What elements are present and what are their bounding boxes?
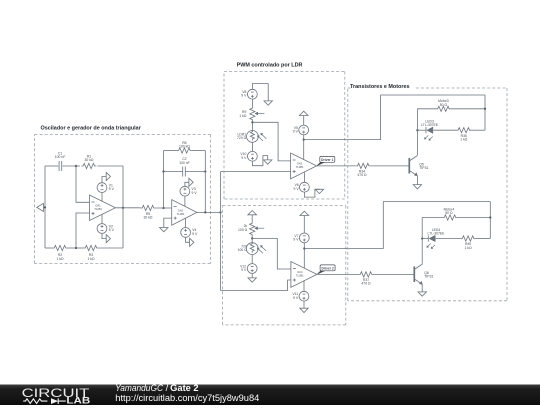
wire: triangle wave vertical distribution [220,172,222,291]
wire: collector vertical Q6 [421,218,423,264]
svg-text:1 kΩ: 1 kΩ [460,138,468,142]
resistor R37 [359,272,374,277]
wire: stage1 top rail y=166 [45,165,58,167]
wire: non-inverting input stub to bottom rail [76,213,90,248]
wire: right vertical of Motor3 loop [484,95,486,130]
voltage source V8 [248,89,258,99]
ground symbol below Q5 [413,185,421,189]
wire: +9V rail to transistor section (Motor3) [304,95,485,140]
svg-text:9 V: 9 V [192,232,198,236]
wire: R9 to LDR1 [251,121,253,130]
wire: V11 negative supply stem [303,281,305,291]
svg-text:100 Ω: 100 Ω [238,248,248,252]
wire: LDR2 to V12 [251,255,253,264]
wire: base wire R37 to Q6 [374,273,414,275]
resistor R40 [461,236,476,241]
node junction V7 rail [303,247,305,249]
resistor R34 [356,163,371,168]
op-amp OA3 [291,153,317,179]
ground symbol below Q6 [418,292,426,296]
svg-text:9 V: 9 V [293,130,299,134]
svg-text:50 Ω: 50 Ω [440,103,448,107]
wire: OA1 output to R5 [116,207,141,209]
resistor R5 [141,205,156,210]
node junction OA2 output at feedback [204,211,206,213]
svg-text:470 Ω: 470 Ω [361,282,371,286]
svg-text:TIP31: TIP31 [424,275,433,279]
voltage source V7 [299,233,309,243]
svg-text:PWM controlado por LDR: PWM controlado por LDR [237,62,303,68]
op-amp OA4 [291,262,317,288]
wire: V8 top to negative rail arrow [252,84,268,101]
voltage source V3 [180,186,190,196]
svg-text:LTL-307EE: LTL-307EE [421,123,439,127]
svg-text:720 Ω: 720 Ω [237,136,247,140]
wire: V6 bottom to negative rail arrow [304,189,319,197]
svg-text:30 kΩ: 30 kΩ [144,215,153,219]
wire: V12 to ground [251,273,253,278]
wire: triangle wave to OA4 non-inverting input [221,280,291,291]
wire: stage1 left vertical [44,166,46,248]
voltage source V11 [299,291,309,301]
resistor R1 [81,163,96,168]
wire: VCC arrow to potentiometer [251,215,253,222]
wire: inverting input stub from top rail [76,166,90,202]
wire: divider tap to OA3 inverting input [252,122,290,161]
svg-text:TL081: TL081 [296,165,304,169]
ground symbol at OA2 non-inverting input [160,228,168,232]
wire: stage1 bottom rail y=248 [45,247,53,249]
svg-text:1 kΩ: 1 kΩ [465,246,473,250]
section box: Oscilador e gerador de onda triangular [35,134,211,136]
wire: base wire R34 to Q5 [371,165,409,167]
voltage source V10 [248,151,258,161]
node junction at R2/R3 bottom rail [75,247,77,249]
voltage source V12 [247,264,257,274]
wire: R6 feedback top rail [164,150,177,152]
svg-text:Oscilador e gerador de onda tr: Oscilador e gerador de onda triangular [41,126,142,132]
positive supply arrow above potentiometer [248,211,257,215]
svg-text:TL081: TL081 [177,212,185,216]
wire: V1 positive supply stem [101,193,103,202]
node junction C2 left [162,170,164,172]
wire: stage2 feedback left vertical [163,151,165,209]
svg-text:100 nF: 100 nF [179,161,190,165]
photoresistor LDR1 [247,131,259,143]
node junction Motor4/rail [489,216,491,218]
named node flag Driver 2 [317,271,325,275]
svg-text:9 V: 9 V [241,156,247,160]
node junction at C1/R1 top rail [75,165,77,167]
svg-text:TL081: TL081 [94,207,102,211]
svg-text:30 kΩ: 30 kΩ [85,158,94,162]
LED LED3 [425,127,427,133]
wire: V10 bottom to negative rail arrow [252,156,267,166]
wire: divider tap to OA4 inverting input [252,238,291,269]
svg-text:LTL-307EE: LTL-307EE [428,232,446,236]
ground symbol below V11 [300,308,308,312]
wire: R5 to OA2 inverting input [156,207,172,209]
supply arrow flag above V3 [185,182,189,186]
svg-text:1 kΩ: 1 kΩ [56,257,64,261]
wire: Q6 emitter to ground [421,284,423,292]
LED3 emitted light arrows [425,135,429,139]
svg-text:9 V: 9 V [293,296,299,300]
voltage source V1 [97,183,107,193]
wire: right vertical of Motor4 loop [489,202,491,239]
svg-text:LAB: LAB [66,395,90,405]
svg-text:9 V: 9 V [241,268,247,272]
svg-text:TL081: TL081 [296,274,304,278]
wire: OA2 non-inverting to ground [164,218,172,227]
LED4 emitted light arrows [427,244,431,248]
wire: LDR1 to V10 [251,142,253,151]
LED LED4 [427,235,429,241]
negative supply down-arrow for V10 [264,160,272,164]
wire: V5 to OA3 power pin and motor rail [303,135,305,160]
transistor Q6 [413,266,415,282]
svg-text:OA4: OA4 [297,270,303,274]
negative supply down-arrow for V6 [315,189,323,193]
svg-text:1 kΩ: 1 kΩ [87,257,95,261]
negative supply down-arrow for V8 [264,101,272,105]
svg-text:9 V: 9 V [192,191,198,195]
svg-text:470 Ω: 470 Ω [357,173,367,177]
svg-text:OA3: OA3 [297,162,303,166]
motor M4 (Motor4 winding resistor) [443,215,458,220]
resistor R36 [456,128,471,133]
svg-text:Driver 2: Driver 2 [321,266,333,270]
svg-text:Driver 1: Driver 1 [321,158,333,162]
potentiometer 2k [250,221,255,236]
node junction Motor3/rail [484,108,486,110]
section box: Transistores e Motores [348,87,351,89]
svg-text:OA1: OA1 [95,204,101,208]
voltage source V4 [181,228,191,238]
node junction triangle-wave tee [219,211,221,213]
op-amp OA2 [172,200,197,226]
svg-text:9 V: 9 V [241,94,247,98]
svg-text:100 nF: 100 nF [55,155,66,159]
wire: stage2 feedback right vertical [204,151,206,213]
section box: PWM controlado por LDR [224,71,345,73]
positive supply arrow above V5 [299,111,308,115]
wire: feedback right vertical of stage1 [122,166,124,248]
wire: V11 to ground [303,301,305,308]
node junction at input port [44,206,46,208]
ground symbol below V12 [248,278,256,282]
wire: V2 negative supply stem [101,214,103,223]
wire: VCC arrow to V7 [303,216,305,234]
wire: V8 to R9 [251,99,253,106]
wire: C2 feedback rail [164,171,183,173]
supply arrow flag above V1 [102,177,106,183]
resistor R6 [177,148,192,153]
wire: Motor4 branch rail [422,217,442,219]
node junction collector/LED4 branch [421,237,423,239]
node junction collector/LED3 branch [416,129,418,131]
input port flag (left arrow) [43,206,45,208]
svg-text:TIP31: TIP31 [419,166,428,170]
wire: potentiometer to LDR2 [251,236,253,242]
capacitor C1 [58,161,60,171]
voltage source V5 [299,125,309,135]
wire: OA3 output to R34 [317,165,356,167]
node junction pot/LDR2 divider [251,237,253,239]
photoresistor LDR2 [246,243,258,255]
wire: Q5 emitter to ground [416,176,418,185]
svg-text:http://circuitlab.com/cy7t5jy8: http://circuitlab.com/cy7t5jy8w9u84 [115,392,259,403]
voltage source V2 [97,224,107,234]
svg-text:9 V: 9 V [294,187,300,191]
wire: Motor3 branch rail [417,108,436,110]
capacitor C2 [182,167,184,177]
supply arrow flag below V2 [102,233,106,238]
wire: V7 to OA4 power pin and motor rail [303,243,305,269]
node junction C2 right [204,170,206,172]
named node flag Driver 1 [317,162,325,166]
wire: V3 positive supply stem [184,196,186,206]
svg-text:1 kΩ: 1 kΩ [239,114,247,118]
svg-text:9 V: 9 V [293,238,299,242]
wire: V4 negative supply stem [185,218,187,227]
wire: +9V rail to transistor section (Motor4) [304,202,490,249]
resistor R2 [53,245,68,250]
node junction inverting input of OA2 [162,207,164,209]
motor M3 (Motor3 winding resistor) [436,106,451,111]
transistor Q5 [408,158,410,174]
node junction V5 rail [303,138,305,140]
svg-text:50 Ω: 50 Ω [445,211,453,215]
resistor R3 [84,245,99,250]
wire: VCC arrow to V5 [303,116,305,126]
node junction OA1 output [122,207,124,209]
svg-text:OA2: OA2 [178,208,184,212]
svg-text:9 V: 9 V [109,187,115,191]
voltage source V6 [300,182,310,192]
positive supply arrow above V7 [300,211,309,215]
wire: V6 negative supply stem [303,172,305,182]
wire: LED4 branch rail [422,238,428,240]
wire: OA4 output to R37 [317,273,359,275]
potentiometer R9 [250,106,255,121]
supply arrow flag below V4 [186,237,190,242]
svg-text:9 V: 9 V [109,228,115,232]
op-amp OA1 [90,195,116,221]
wire: LED3 branch rail [417,129,426,131]
wire: collector vertical Q5 [416,109,418,156]
section box: lower PWM comparator [223,205,346,207]
node junction R9/LDR1 divider [251,121,253,123]
svg-text:100 kΩ: 100 kΩ [179,145,190,149]
CircuitLab logo resistor zigzag and diode [23,399,47,404]
svg-text:100 Ω: 100 Ω [238,228,248,232]
wire: OA2 output to distribution tee [197,211,221,213]
svg-text:Transistores e Motores: Transistores e Motores [350,84,410,90]
wire: triangle wave to OA3 non-inverting input [221,171,291,173]
